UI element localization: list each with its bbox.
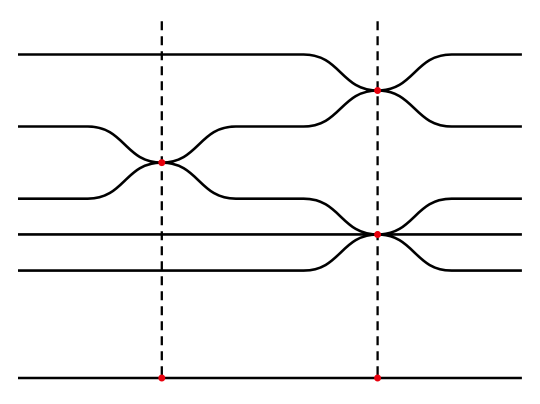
wire W5 fifth strand through lower-right pinch <box>18 199 522 271</box>
wire W6 bottom vacuum strand <box>18 377 522 380</box>
node bottom-left dot on vacuum strand <box>158 375 165 382</box>
dashed measurement line t1 <box>161 21 163 378</box>
node bottom-right dot on vacuum strand <box>374 375 381 382</box>
wire W3 third strand through left pinch and lower-right pinch <box>18 163 522 271</box>
node upper-right pinch fusion dot <box>374 87 381 94</box>
node left pinch fusion dot <box>158 159 165 166</box>
wire W1 top strand through upper-right pinch <box>18 55 522 127</box>
dashed measurement line t2 <box>376 21 378 378</box>
wire W2 second strand through left pinch and upper-right pinch <box>18 55 522 163</box>
node lower-right pinch fusion dot <box>374 231 381 238</box>
wire W4 straight strand through lower-right pinch <box>18 233 522 236</box>
